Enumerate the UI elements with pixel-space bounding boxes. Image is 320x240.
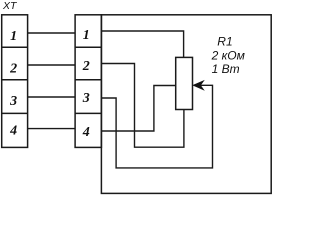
svg-text:XT: XT <box>2 0 18 12</box>
svg-text:3: 3 <box>82 91 90 106</box>
svg-text:1: 1 <box>83 28 90 43</box>
svg-text:1: 1 <box>10 29 17 44</box>
svg-text:R1: R1 <box>217 35 232 49</box>
svg-text:4: 4 <box>82 125 90 140</box>
svg-text:2: 2 <box>9 62 17 77</box>
svg-text:3: 3 <box>9 94 17 109</box>
svg-text:4: 4 <box>9 124 17 139</box>
svg-text:1 Вт: 1 Вт <box>212 62 240 76</box>
svg-text:2 кОм: 2 кОм <box>211 49 245 63</box>
svg-text:2: 2 <box>82 59 90 74</box>
